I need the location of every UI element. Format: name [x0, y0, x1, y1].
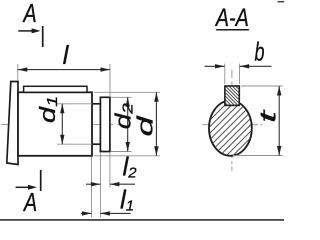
dimension d1	[36, 96, 92, 144]
section title A-A	[214, 4, 249, 32]
dimension d2	[111, 97, 136, 151]
svg-text:t: t	[256, 109, 281, 123]
centerline main view	[1, 124, 120, 126]
collar	[100, 97, 110, 151]
frame border bottom	[0, 219, 284, 221]
dimension l	[18, 40, 110, 97]
shaft body	[18, 92, 92, 156]
hatching shaft section	[162, 92, 304, 162]
svg-text:d: d	[133, 115, 158, 136]
dimension l2	[86, 152, 137, 187]
svg-text:A: A	[22, 0, 37, 28]
dimension d	[94, 92, 160, 156]
hatching key	[218, 62, 248, 129]
section centerline vertical	[231, 70, 233, 172]
key (left view)	[24, 86, 87, 92]
neck bottom edge	[92, 143, 100, 145]
dimension b	[205, 37, 272, 85]
svg-text:A-A: A-A	[214, 4, 249, 32]
frame border top-right segment	[278, 1, 285, 3]
section centerline horizontal	[203, 124, 263, 126]
shaft section ellipse	[162, 92, 304, 162]
shaft break piece	[7, 82, 18, 165]
section arrow A bottom	[16, 170, 41, 217]
extension lines l1 l2	[91, 157, 93, 218]
svg-text:b: b	[255, 37, 265, 67]
neck top edge	[92, 103, 100, 105]
dimension t	[233, 86, 283, 156]
key section	[218, 62, 248, 129]
dimension l1	[81, 185, 134, 216]
svg-text:A: A	[22, 187, 37, 217]
section arrow A top	[18, 0, 42, 47]
